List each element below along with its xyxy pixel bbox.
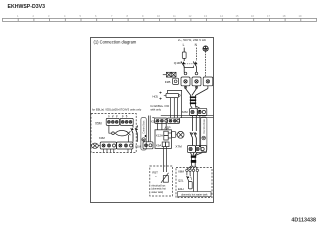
terminal X5M blocks <box>106 118 133 126</box>
tank enclosure dashed box <box>176 168 212 198</box>
wire drops below X2M <box>193 116 200 146</box>
breaker trip link <box>184 66 193 68</box>
supply cable with bands <box>190 96 196 106</box>
terminal X1M block 2 <box>192 72 201 86</box>
svg-text:Control box: Control box <box>141 120 145 134</box>
svg-text:N: N <box>195 43 198 47</box>
svg-text:EKHWSP-D3V3: EKHWSP-D3V3 <box>8 4 46 10</box>
lower right small block <box>143 142 153 149</box>
terminal X7M blocks <box>187 146 206 153</box>
breaker Q1DI pole on N <box>193 61 197 66</box>
svg-text:X8M: X8M <box>178 170 185 174</box>
control box outline <box>201 117 207 152</box>
svg-text:X1M: X1M <box>135 145 142 149</box>
terminal X1M block 3 <box>203 77 213 86</box>
terminal circles below X1M <box>184 86 186 88</box>
mid row stubs to pcb <box>158 123 167 129</box>
mid terminal row blocks <box>155 118 180 123</box>
bottom-left terminal row <box>100 142 133 149</box>
pcb A1P outline <box>155 130 171 149</box>
svg-text:(1) Connection diagram: (1) Connection diagram <box>94 40 137 45</box>
svg-text:water tank): water tank) <box>151 191 163 194</box>
svg-text:R5T: R5T <box>152 171 158 175</box>
terminal X1M block 1 <box>181 72 190 86</box>
fuse F1U on L <box>182 52 186 58</box>
relay contacts left <box>131 125 138 141</box>
svg-text:K3M: K3M <box>99 136 105 140</box>
terminal X8M pins <box>186 169 199 171</box>
svg-text:14: 14 <box>220 14 223 18</box>
svg-text:6: 6 <box>95 14 97 18</box>
terminal X2M blocks <box>190 106 207 116</box>
svg-text:9: 9 <box>142 14 144 18</box>
thermistor R5T symbol <box>161 173 169 183</box>
svg-text:11: 11 <box>173 14 176 18</box>
wire L below breaker <box>183 67 185 73</box>
booster heater element <box>188 182 192 189</box>
svg-text:*: * <box>155 175 157 179</box>
folding ruler bar <box>3 18 317 21</box>
wire L drop <box>183 48 185 52</box>
ruler tick numbers <box>17 14 302 18</box>
contactor contacts K1M <box>190 132 197 146</box>
breaker Q1DI pole on L <box>181 61 185 66</box>
svg-text:2: 2 <box>33 14 35 18</box>
svg-text:X12A: X12A <box>156 134 163 138</box>
thermal protector Q2L contact <box>187 175 192 181</box>
svg-text:10: 10 <box>157 14 160 18</box>
earth terminal squares <box>163 72 176 77</box>
option tag rounded box <box>141 118 146 151</box>
fuse F2B body <box>173 78 179 84</box>
svg-text:Q2L: Q2L <box>178 179 184 183</box>
junction dot lower <box>199 145 201 147</box>
svg-text:3: 3 <box>48 14 50 18</box>
tank internal wires <box>187 172 197 192</box>
svg-text:E4H: E4H <box>178 187 184 191</box>
svg-text:Control box: Control box <box>202 119 206 134</box>
pump motor M1P <box>172 131 184 138</box>
relay K7M pin marks <box>159 92 166 100</box>
wire N dash-dot drop <box>195 48 197 61</box>
tank name plate <box>178 192 211 197</box>
svg-text:X7M: X7M <box>175 145 182 149</box>
lower bus wire <box>152 117 154 119</box>
svg-text:Q1DI: Q1DI <box>174 61 181 65</box>
svg-text:13: 13 <box>204 14 207 18</box>
svg-text:15: 15 <box>236 14 239 18</box>
wires to thermistor <box>164 147 167 172</box>
cable to tank with bands <box>187 153 203 170</box>
stubs below lower row <box>104 149 132 152</box>
svg-text:17: 17 <box>267 14 270 18</box>
svg-text:12: 12 <box>189 14 192 18</box>
svg-text:domestic hot water tank: domestic hot water tank <box>181 193 208 196</box>
wire PE dash drop <box>205 51 207 77</box>
wire N below breaker <box>195 67 197 73</box>
junction dot on earth wire <box>199 110 201 112</box>
relay K3M coil <box>109 125 130 142</box>
relay K7M body <box>166 93 179 97</box>
svg-text:2~, 50 Hz, 230 V AC: 2~, 50 Hz, 230 V AC <box>178 38 207 42</box>
svg-text:7: 7 <box>111 14 113 18</box>
svg-text:19: 19 <box>299 14 302 18</box>
svg-text:4D113438: 4D113438 <box>291 218 316 224</box>
earth symbol in control box <box>202 136 206 140</box>
svg-text:1: 1 <box>17 14 19 18</box>
svg-text:18: 18 <box>283 14 286 18</box>
svg-text:A1P: A1P <box>165 126 171 130</box>
svg-text:L: L <box>183 43 185 47</box>
svg-text:H(3): H(3) <box>153 95 159 99</box>
svg-text:F2B: F2B <box>165 80 171 84</box>
wire L to breaker <box>183 58 185 61</box>
bus wire <box>161 114 214 116</box>
connection diagram frame <box>91 38 214 203</box>
svg-text:16: 16 <box>251 14 254 18</box>
protective earth symbol <box>203 46 208 51</box>
svg-text:for EBL(s) / EDL(s)05+07CAV3 u: for EBL(s) / EDL(s)05+07CAV3 units only <box>92 108 142 112</box>
svg-text:for EKBH+ / KD: for EKBH+ / KD <box>151 104 170 108</box>
note circle (4) <box>145 135 147 137</box>
bottom-left pump oval M2P <box>92 143 101 148</box>
svg-text:5: 5 <box>80 14 82 18</box>
wire pair to lower block <box>147 116 149 142</box>
tank sensor dashed box <box>150 166 173 196</box>
wire X12A to pump <box>168 133 171 138</box>
wires converging into supply cable <box>186 86 208 96</box>
X5M pin numbers <box>108 114 128 118</box>
svg-text:with only: with only <box>151 107 162 111</box>
option kit dashed box <box>91 114 136 153</box>
svg-text:X9A: X9A <box>156 143 162 147</box>
svg-text:8: 8 <box>127 14 129 18</box>
svg-text:4: 4 <box>64 14 66 18</box>
svg-text:X5M: X5M <box>95 121 102 125</box>
svg-text:X2M: X2M <box>181 110 188 114</box>
breaker linkage dashes <box>185 63 194 65</box>
relay K7M wiring <box>168 90 182 118</box>
